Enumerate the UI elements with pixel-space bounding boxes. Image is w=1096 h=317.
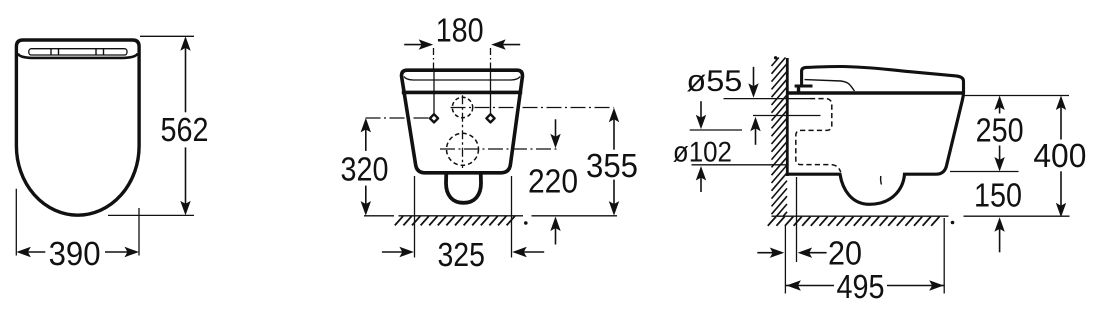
dim 400 [1056, 96, 1066, 111]
wall hatch top dot [774, 56, 777, 59]
ground dot side [951, 221, 955, 225]
tank lid inner line [404, 77, 520, 81]
svg-text:ø102: ø102 [673, 137, 732, 169]
o55 inlet bottom line [753, 115, 821, 117]
svg-text:ø55: ø55 [686, 65, 742, 98]
drain tick in bowl [880, 176, 883, 185]
hinge ticks [51, 49, 104, 55]
svg-text:562: 562 [161, 112, 209, 149]
tank shelf line [402, 91, 522, 95]
mid extension line right [950, 171, 1019, 173]
side view: toilet profile on wall [673, 56, 1087, 306]
wall hatch [772, 58, 779, 67]
svg-text:390: 390 [49, 236, 101, 273]
ground line hatched segment [399, 215, 524, 217]
ground line hatched segment side view [772, 215, 949, 217]
pan top line [787, 91, 963, 95]
o55 arrows [748, 83, 758, 98]
dim 180 extension dashdot [433, 48, 435, 69]
outlet dashed circle o102 [447, 133, 479, 165]
dim 390 arrows [16, 247, 31, 257]
water inlet dashed circle o55 [452, 97, 472, 117]
fixing hole left [430, 114, 438, 122]
o102 arrows [696, 115, 706, 130]
svg-text:495: 495 [837, 269, 885, 306]
svg-text:150: 150 [974, 178, 1022, 215]
o102 top line [690, 129, 742, 131]
svg-text:400: 400 [1033, 138, 1086, 175]
outlet U shape [446, 173, 481, 203]
dim 150 bottom arrow [994, 217, 1004, 232]
front view: toilet facing viewer [341, 13, 639, 274]
center line inlet level to right [451, 107, 614, 109]
svg-text:180: 180 [436, 13, 484, 50]
lid hinge step [795, 85, 813, 88]
dim 250 [994, 96, 1004, 111]
lid profile [802, 66, 964, 91]
vertical center line through circles [462, 95, 464, 168]
dim 180 arrows [419, 39, 434, 49]
seat back edge arc [18, 54, 138, 58]
dim 495 right extension [943, 218, 945, 294]
dim 495 [786, 280, 801, 290]
left view: toilet seen from above [16, 36, 208, 273]
pan body outline [787, 91, 963, 204]
svg-text:220: 220 [528, 164, 578, 201]
svg-text:355: 355 [586, 148, 638, 185]
lid joint line [805, 80, 855, 91]
center line outlet level to right [440, 148, 559, 150]
wall face line [786, 58, 789, 176]
lid hinge strip [29, 49, 127, 55]
dim 562 extension lines [140, 35, 194, 37]
dim 220 arrows outside [550, 134, 560, 149]
svg-text:325: 325 [437, 237, 485, 274]
dim 355 [609, 108, 619, 123]
dim 325 extension lines [414, 176, 416, 258]
pan back extension line [796, 177, 798, 262]
svg-text:250: 250 [976, 113, 1024, 150]
ground line right segment [532, 215, 618, 217]
dim 562 arrows [180, 36, 190, 51]
top extension line right [962, 95, 1069, 97]
ground line right segment side [964, 215, 1070, 217]
dim 20 arrows outside [770, 248, 785, 258]
wall face extension below ground [784, 225, 786, 294]
body outline [402, 70, 523, 173]
svg-text:320: 320 [341, 151, 389, 188]
dim 325 arrows outside [399, 247, 414, 257]
o102 bottom line [692, 164, 788, 166]
ground line left segment [364, 215, 394, 217]
fixing hole right [486, 114, 494, 122]
hidden pipe dashed path [796, 99, 841, 172]
dim 390 extension lines [15, 189, 17, 256]
svg-text:20: 20 [828, 236, 862, 273]
fixing hole center lines vertical [433, 70, 435, 114]
seat outline [16, 40, 139, 215]
dim 320 [361, 118, 371, 132]
center line through fixing holes left [366, 117, 431, 119]
o55 inlet top line [724, 98, 811, 100]
ground dot [524, 221, 528, 225]
